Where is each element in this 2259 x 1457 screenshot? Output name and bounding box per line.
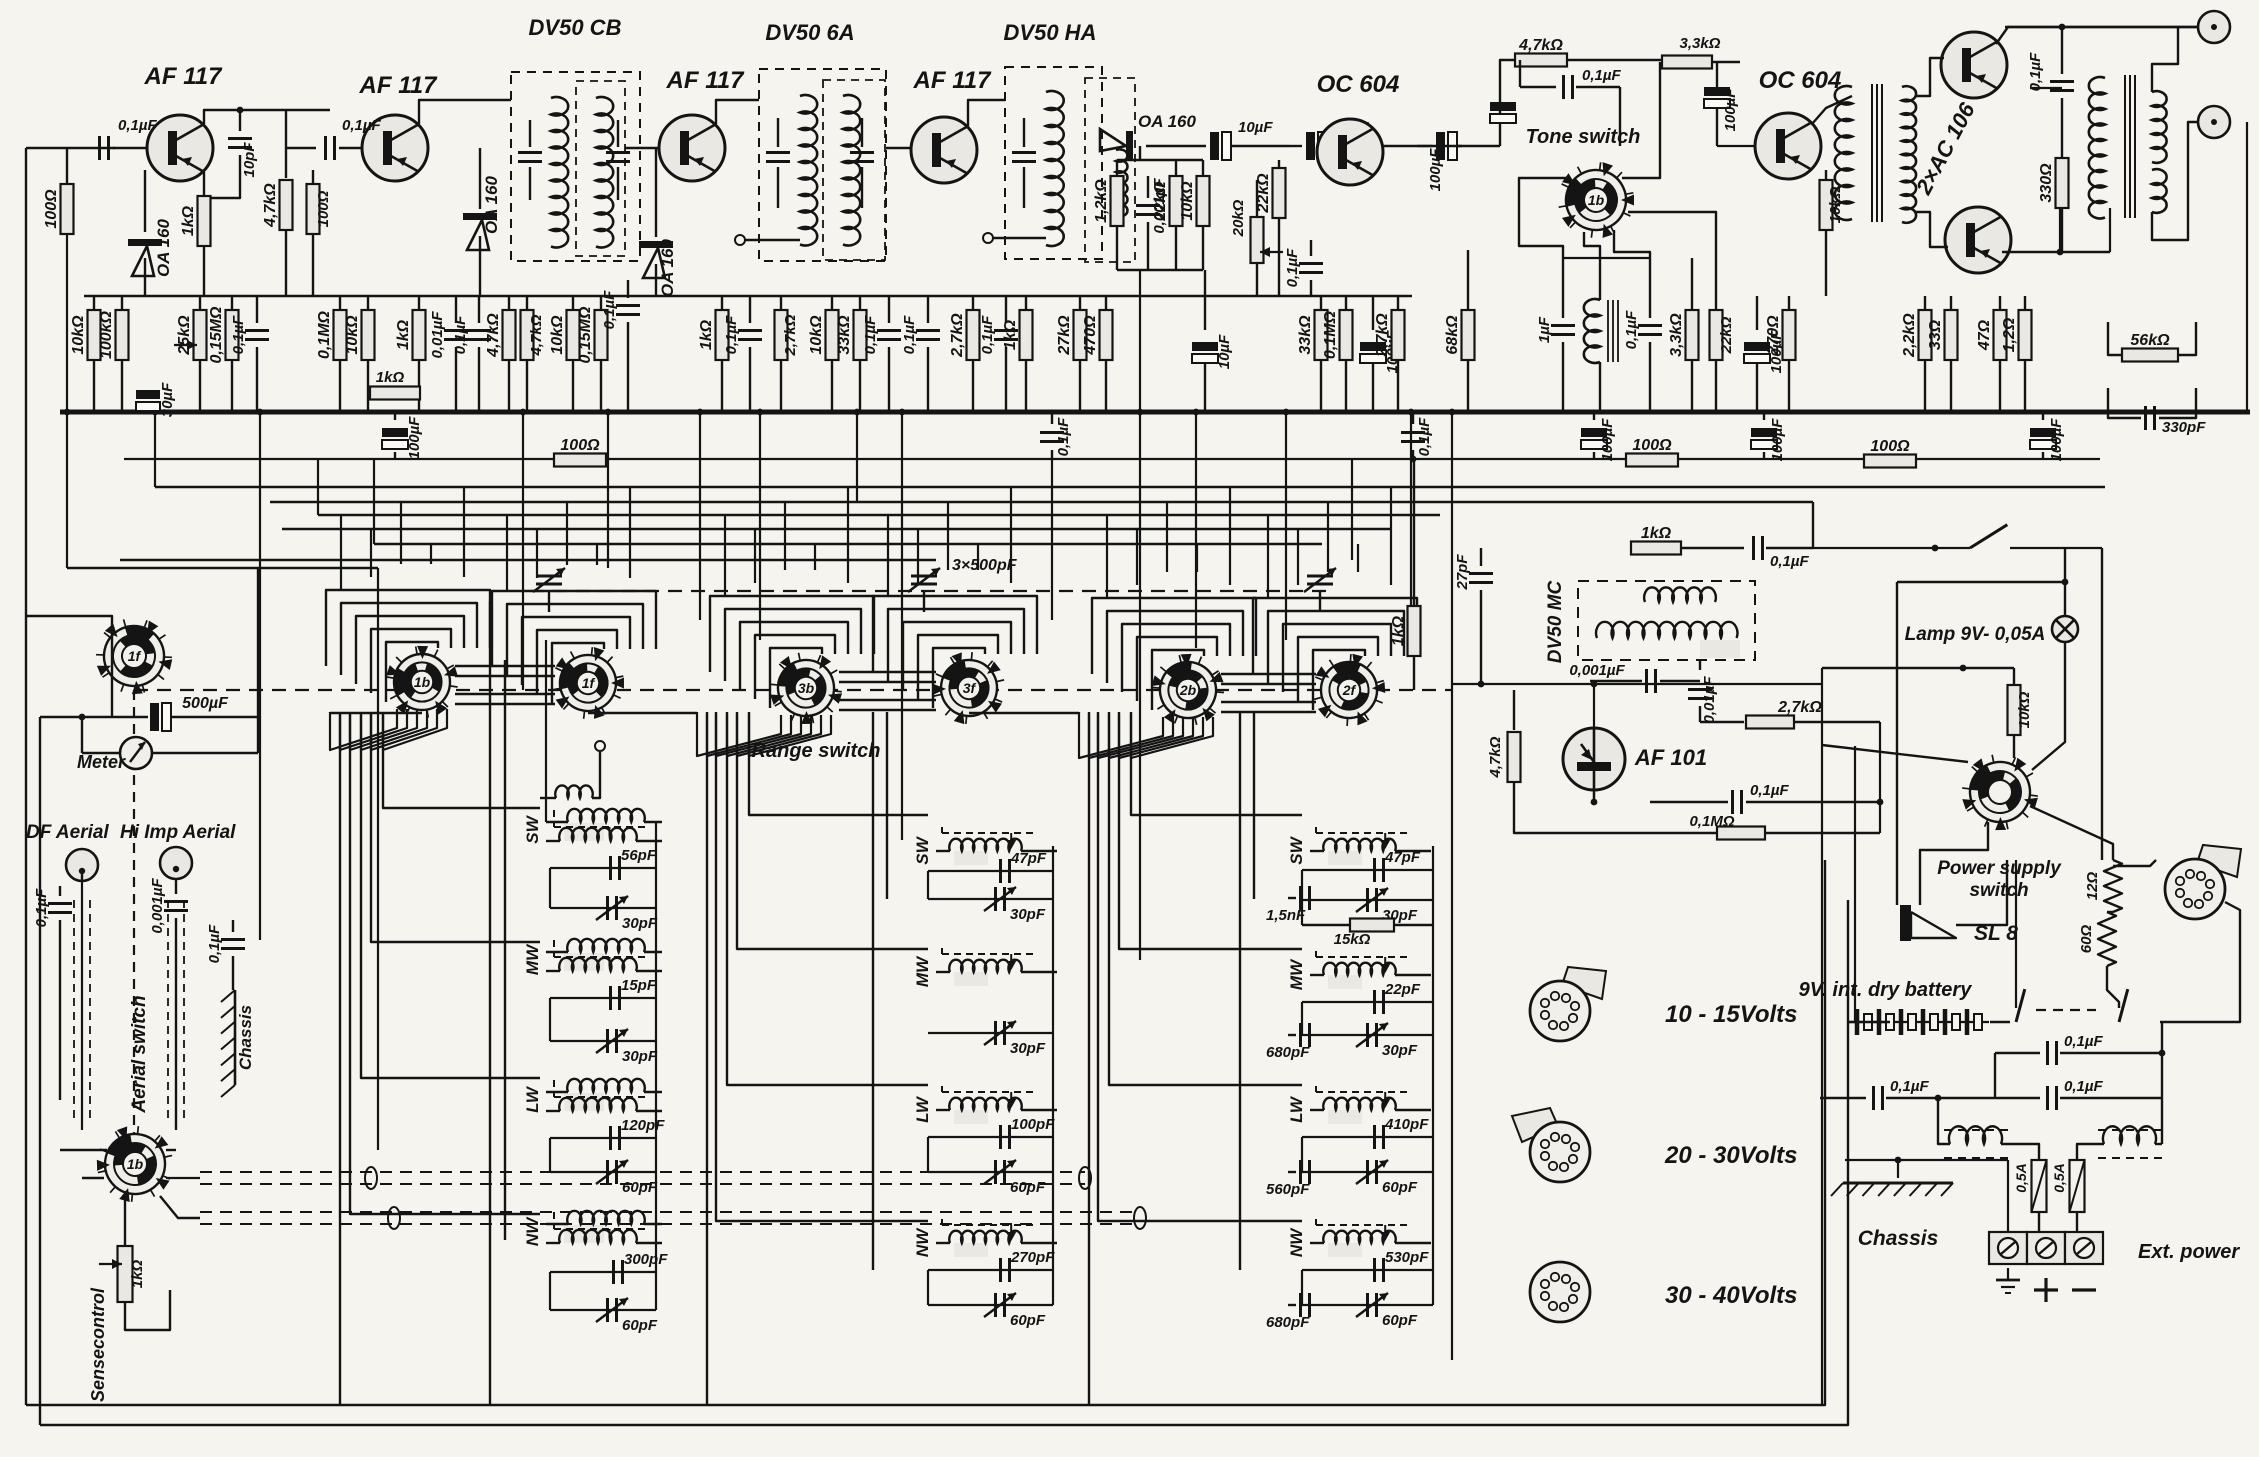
resistor 47R out <box>1999 296 2001 310</box>
svg-text:30pF: 30pF <box>1010 1040 1046 1057</box>
capacitor 680pF mw <box>1288 1034 1296 1036</box>
transformer T3 DV50 HA dashed box <box>1005 67 1102 259</box>
svg-text:1µF: 1µF <box>1536 316 1553 343</box>
coil T3 secondary <box>1116 149 1127 216</box>
wire tone fan a <box>1519 178 1566 258</box>
svg-text:60pF: 60pF <box>1010 1312 1046 1329</box>
wire stair run <box>361 712 540 1078</box>
svg-text:100pF: 100pF <box>1011 1116 1055 1133</box>
capacitor 300pF <box>550 1271 656 1273</box>
wire routing h515 <box>318 514 1440 516</box>
svg-text:1b: 1b <box>1588 192 1605 208</box>
svg-text:33Ω: 33Ω <box>1927 319 1944 350</box>
svg-text:30pF: 30pF <box>622 915 658 932</box>
wire 10k power <box>1822 667 2014 669</box>
inductor choke b <box>2103 1126 2156 1144</box>
coil T1 secondary <box>596 97 613 247</box>
capacitor 27pF <box>1480 548 1482 566</box>
resistor 1k v2 <box>418 296 420 310</box>
inductor pickup coil col1 <box>555 785 592 798</box>
wire meter row <box>82 752 120 754</box>
svg-text:4,7kΩ: 4,7kΩ <box>1518 37 1563 54</box>
resistor 2,7k v4 <box>972 296 974 310</box>
wire stair run <box>1131 712 1302 815</box>
svg-text:LW: LW <box>913 1095 932 1122</box>
resistor 4,7k a <box>508 296 510 310</box>
svg-text:0,1µF: 0,1µF <box>901 315 918 354</box>
svg-text:1,5nF: 1,5nF <box>1266 907 1306 924</box>
svg-text:30 - 40Volts: 30 - 40Volts <box>1665 1282 1798 1309</box>
wire T2 to V4 <box>886 147 911 149</box>
transformer T2 DV50 6A dashed box <box>759 69 886 261</box>
resistor 4,7k tone <box>1500 60 1516 146</box>
resistor 60R zigzag <box>2098 912 2116 966</box>
svg-text:0,01µF: 0,01µF <box>1701 676 1718 724</box>
capacitor 47pF <box>928 870 1053 872</box>
wire base V1 <box>113 147 147 149</box>
wire stair run <box>1109 712 1302 1085</box>
wire v258 <box>257 568 259 753</box>
transistor V4 AF 117 <box>911 117 977 183</box>
switch S1b rotary <box>386 646 458 718</box>
svg-text:0,1µF: 0,1µF <box>1770 553 1809 570</box>
resistor 27k t3 <box>1079 296 1081 310</box>
resistor 10k v2 <box>367 296 369 310</box>
capacitor 30pF <box>1302 1034 1433 1036</box>
svg-text:Power supply: Power supply <box>1937 858 2062 879</box>
capacitor 0,1uF <box>256 296 258 323</box>
svg-text:0,1µF: 0,1µF <box>2027 52 2044 91</box>
capacitor 0,1uF rail <box>1051 412 1053 424</box>
svg-text:100µF: 100µF <box>406 416 423 460</box>
wire lamp junction <box>1897 581 2065 583</box>
svg-text:Chassis: Chassis <box>1858 1227 1939 1250</box>
svg-text:1kΩ: 1kΩ <box>395 319 412 350</box>
wire bottom outer <box>26 860 1825 1405</box>
transistor V2 AF 117 <box>362 115 428 181</box>
svg-text:0,5A: 0,5A <box>2013 1163 2029 1193</box>
resistor 56k fb <box>2122 349 2178 362</box>
svg-text:0,1µF: 0,1µF <box>1623 310 1640 349</box>
resistor 10k t2 <box>831 296 833 310</box>
capacitor 500uF <box>40 716 148 718</box>
capacitor 100uF v5 <box>1372 296 1374 330</box>
inductor tone choke <box>1599 258 1601 300</box>
svg-text:4,7kΩ: 4,7kΩ <box>1487 736 1504 778</box>
resistor 1k V1 <box>203 172 205 196</box>
capacitor 0,001uF aerial <box>175 879 177 894</box>
transformer T4 driver <box>1835 86 1852 220</box>
svg-text:OA 160: OA 160 <box>154 218 173 277</box>
wire col1 left pair a <box>504 660 506 1240</box>
meter M <box>120 737 152 769</box>
wire stair run <box>1119 712 1302 949</box>
svg-text:10µF: 10µF <box>1238 119 1273 136</box>
capacitor 1,5nF <box>1288 897 1296 899</box>
resistor 0,1M v5 <box>1345 296 1347 310</box>
svg-text:0,1µF: 0,1µF <box>1582 67 1621 84</box>
wire col1 right vertical <box>655 822 657 1310</box>
diode SL8 <box>1900 905 1911 941</box>
svg-text:25kΩ: 25kΩ <box>176 315 193 356</box>
svg-text:AF 117: AF 117 <box>144 63 224 90</box>
svg-text:1kΩ: 1kΩ <box>1390 615 1407 646</box>
svg-text:60pF: 60pF <box>622 1179 658 1196</box>
wire tone node <box>1563 257 1650 259</box>
wire tone fan c <box>1614 230 1650 258</box>
wire tone fan e <box>1622 62 1660 178</box>
wire routing h544 <box>374 543 1322 545</box>
capacitor 270pF <box>928 1269 1053 1271</box>
svg-text:0,1MΩ: 0,1MΩ <box>1689 813 1734 830</box>
svg-text:Ext. power: Ext. power <box>2138 1241 2240 1263</box>
resistor 25k pot <box>194 310 207 360</box>
capacitor 0,001uF <box>1147 176 1149 198</box>
svg-text:OA 160: OA 160 <box>1138 112 1197 131</box>
svg-text:22pF: 22pF <box>1384 981 1421 998</box>
svg-text:0,1µF: 0,1µF <box>1284 248 1301 287</box>
wire det row <box>1117 269 1203 271</box>
capacitor 0,1uF ps c <box>1995 1097 2040 1099</box>
svg-text:500µF: 500µF <box>182 695 229 712</box>
wire left frame inner <box>39 717 41 1425</box>
capacitor 30pF <box>550 907 656 909</box>
svg-text:Meter: Meter <box>77 752 126 772</box>
svg-text:OC 604: OC 604 <box>1317 71 1400 98</box>
wire secondary rail y459 <box>124 458 2100 460</box>
capacitor 0,1uF v4 <box>927 296 929 323</box>
transformer T6 DV50 MC dashed box <box>1578 581 1755 660</box>
connector volts 20-30 <box>1512 1108 1558 1142</box>
svg-text:4,7kΩ: 4,7kΩ <box>485 313 502 358</box>
capacitor 0,1uF b <box>478 296 480 323</box>
wire v700 <box>699 412 701 620</box>
connector DF aerial <box>66 849 98 881</box>
svg-text:0,1µF: 0,1µF <box>862 315 879 354</box>
resistor 3,3k tone top <box>1660 59 1662 61</box>
capacitor 10uF no1 <box>1146 145 1206 147</box>
svg-text:AF 117: AF 117 <box>666 67 746 94</box>
resistor 1k afc <box>1631 542 1681 555</box>
wire feeds switch 2f <box>1267 515 1269 598</box>
wire tone fan d <box>1628 212 1716 258</box>
wire 12R 60R join <box>2107 911 2113 913</box>
coil T1 primary <box>551 97 568 247</box>
wire on-off drop <box>1812 502 1814 548</box>
svg-text:0,1µF: 0,1µF <box>206 924 223 963</box>
svg-text:22kΩ: 22kΩ <box>1718 316 1735 354</box>
resistor 1k v3 <box>721 296 723 310</box>
terminal ext ground <box>1989 1232 2027 1264</box>
potentiometer sensecontrol 1k <box>124 1196 126 1246</box>
switch S power supply rotary <box>1948 739 2053 844</box>
svg-text:0,1MΩ: 0,1MΩ <box>1322 310 1339 359</box>
svg-text:1kΩ: 1kΩ <box>180 205 197 236</box>
svg-text:0,5A: 0,5A <box>2051 1163 2067 1193</box>
wire output primary top <box>2030 87 2062 89</box>
resistor 470R t3 <box>1105 296 1107 310</box>
capacitor variable gang 2 <box>911 575 937 578</box>
coil T2 secondary <box>843 95 860 245</box>
capacitor 560pF lw <box>1288 1171 1296 1173</box>
svg-text:10kΩ: 10kΩ <box>549 315 566 355</box>
resistor 4,7k <box>285 110 287 178</box>
svg-text:60Ω: 60Ω <box>2078 925 2095 954</box>
ground chassis aerial <box>234 990 237 1085</box>
svg-text:switch: switch <box>1969 880 2028 901</box>
transistor V6 OC 604 <box>1755 113 1821 179</box>
wire ps v1995 <box>1994 1053 1996 1098</box>
wire v608 <box>607 412 609 568</box>
connector power plug <box>2197 845 2241 877</box>
resistor 100R rail a <box>554 454 606 467</box>
wire col3 right vertical <box>1432 846 1434 1305</box>
switch S tone rotary <box>1549 153 1643 247</box>
svg-text:0,001µF: 0,001µF <box>149 877 166 933</box>
capacitor 30pF <box>928 898 1053 900</box>
capacitor 30pF <box>1302 899 1433 901</box>
capacitor 100pF <box>928 1136 1053 1138</box>
capacitor 680pF nw <box>1288 1304 1296 1306</box>
svg-text:NW: NW <box>913 1227 932 1257</box>
svg-text:680pF: 680pF <box>1266 1044 1310 1061</box>
wire v260 <box>259 412 261 940</box>
svg-text:0,1MΩ: 0,1MΩ <box>316 310 333 359</box>
svg-text:3,3kΩ: 3,3kΩ <box>1668 313 1685 357</box>
inductor LW coil <box>1328 1110 1362 1124</box>
wire v1052 <box>1051 459 1053 620</box>
svg-text:33kΩ: 33kΩ <box>836 315 853 355</box>
svg-text:560pF: 560pF <box>1266 1181 1310 1198</box>
wire stair run <box>716 712 928 1221</box>
capacitor 100uF below bus b <box>1593 412 1595 420</box>
wire feeds switch 1b <box>340 515 342 590</box>
svg-text:MW: MW <box>1287 958 1306 990</box>
capacitor 330pF fb <box>2144 406 2147 430</box>
svg-text:DF Aerial: DF Aerial <box>26 822 109 843</box>
resistor 1k osc <box>1413 459 1415 606</box>
wire stair run <box>749 712 928 815</box>
resistor 33R out <box>1950 296 1952 310</box>
wire 1b hook a <box>60 1149 107 1151</box>
capacitor variable gang 1 <box>536 575 562 578</box>
transformer T1 DV50 CB dashed box <box>511 72 640 261</box>
switch S1f aerial rotary <box>90 611 180 701</box>
svg-text:3f: 3f <box>963 680 977 696</box>
wire af101 out right <box>1879 722 1881 833</box>
svg-text:0,1µF: 0,1µF <box>1750 782 1789 799</box>
wire stair left link <box>969 712 1079 713</box>
svg-text:10 - 15Volts: 10 - 15Volts <box>1665 1001 1798 1028</box>
resistor 33k v5 <box>1320 296 1322 310</box>
wire v1140 <box>1139 412 1141 960</box>
svg-text:0,1µF: 0,1µF <box>979 315 996 354</box>
wire y684 <box>1452 683 1822 685</box>
svg-text:0,1µF: 0,1µF <box>601 290 618 329</box>
capacitor T2 secondary <box>861 118 863 147</box>
svg-text:30pF: 30pF <box>1010 906 1046 923</box>
svg-text:9V. int. dry battery: 9V. int. dry battery <box>1799 979 1973 1001</box>
wire col1 left pair b <box>489 601 491 1405</box>
capacitor 60pF <box>1302 1171 1433 1173</box>
capacitor 0,1uF aerial <box>59 886 61 896</box>
cable HiImp screened <box>183 900 185 1120</box>
svg-text:47Ω: 47Ω <box>1976 319 1993 351</box>
transistor V8 AC 106 lower <box>1945 207 2011 273</box>
wire choke drops <box>1938 1098 1950 1144</box>
wire col1 left vertical b <box>549 1138 551 1172</box>
switch S power on/off <box>1813 547 1970 549</box>
capacitor 100uF tone2 <box>1704 87 1730 96</box>
diode OA 160 no1 <box>128 239 162 246</box>
wire 10pF down <box>206 180 240 198</box>
capacitor 100uF v6 <box>1756 296 1758 330</box>
wire sl8 drop <box>1896 582 1898 905</box>
capacitor 0,1uF t2 <box>888 296 890 323</box>
resistor 2,7k osc <box>1700 721 1744 723</box>
wire output core link <box>2104 74 2106 76</box>
capacitor 0,01uF <box>455 296 457 323</box>
svg-text:1b: 1b <box>127 1156 144 1172</box>
coil T6 upper <box>1644 587 1716 602</box>
wire v1822 <box>1821 668 1823 1405</box>
svg-text:410pF: 410pF <box>1384 1116 1429 1133</box>
wire af101 bottom <box>1593 790 1595 802</box>
svg-text:1kΩ: 1kΩ <box>1002 319 1019 350</box>
wire inter-switch bundles <box>455 665 555 667</box>
svg-text:0,1µF: 0,1µF <box>1416 417 1433 456</box>
wire routing h568 <box>67 567 378 569</box>
svg-text:22kΩ: 22kΩ <box>1152 181 1169 222</box>
capacitor 0,1uF v4b <box>1005 296 1007 323</box>
svg-text:OA 160: OA 160 <box>658 238 677 297</box>
switch S3f rotary <box>919 637 1020 738</box>
wire v1848 <box>1854 746 1856 1022</box>
resistor 2,2k out <box>1924 296 1926 310</box>
switch S1f rotary <box>543 638 633 727</box>
resistor 12R zigzag <box>2104 860 2122 912</box>
resistor 270R v6 <box>1788 296 1790 310</box>
wire af101 top <box>1593 684 1595 728</box>
connector Hi Imp aerial <box>160 847 192 879</box>
wire v1452 down <box>1451 690 1453 1360</box>
wire 1b hook c <box>166 1149 176 1151</box>
svg-text:100Ω: 100Ω <box>43 189 60 229</box>
svg-text:Lamp 9V- 0,05A: Lamp 9V- 0,05A <box>1905 624 2046 645</box>
svg-text:30µF: 30µF <box>159 382 176 417</box>
svg-text:2f: 2f <box>1342 682 1357 698</box>
transformer T5 output <box>2089 77 2105 218</box>
wire lamp down <box>2064 642 2066 700</box>
svg-text:330Ω: 330Ω <box>2038 163 2055 203</box>
connector speaker jack lower <box>2198 106 2230 138</box>
capacitor 60pF <box>928 1304 1053 1306</box>
capacitor 10pF <box>239 110 241 131</box>
svg-text:15pF: 15pF <box>621 977 657 994</box>
wire left input drop <box>25 148 27 616</box>
wire v523 <box>522 412 524 690</box>
wire chassis stem <box>1895 1157 1902 1164</box>
capacitor 0,1uF af101 <box>1593 790 1595 802</box>
wire stair run <box>371 712 540 942</box>
resistor 100R rail b <box>1626 454 1678 467</box>
svg-text:60pF: 60pF <box>1382 1312 1418 1329</box>
capacitor 0,1uF tone <box>1520 86 1556 88</box>
svg-text:10kΩ: 10kΩ <box>344 315 361 355</box>
capacitor C 0,1uF input <box>98 136 101 160</box>
wire 1b hook b <box>82 1177 104 1179</box>
wire right edge <box>2246 122 2248 412</box>
wire v760 <box>759 412 761 640</box>
capacitor 30pF <box>928 1032 1053 1034</box>
capacitor 0,01uF osc <box>1699 660 1701 670</box>
fuse 0,5A b <box>2070 1160 2085 1212</box>
node aerial term T3 <box>983 233 993 243</box>
switch battery contact a <box>1990 1021 2010 1023</box>
capacitor 1uF tone <box>1562 258 1564 318</box>
svg-text:MW: MW <box>523 943 542 975</box>
transistor V1 AF 117 <box>147 115 213 181</box>
resistor 1,2k <box>1116 160 1118 176</box>
wire T1 to V3 <box>625 147 659 149</box>
svg-text:DV50 CB: DV50 CB <box>529 15 622 40</box>
svg-text:100µF: 100µF <box>1427 148 1444 192</box>
capacitor 0,1uF t1 <box>627 280 629 298</box>
resistor 22k agc <box>1278 160 1280 170</box>
wire ps v2162 <box>2161 1022 2163 1098</box>
svg-text:0,1µF: 0,1µF <box>452 315 469 354</box>
ground chassis power <box>1843 1182 1953 1185</box>
resistor 68k v5 <box>1467 250 1469 310</box>
svg-text:20 - 30Volts: 20 - 30Volts <box>1664 1142 1798 1169</box>
svg-text:3b: 3b <box>798 680 815 696</box>
wire routing h487 <box>155 486 2105 488</box>
svg-text:DV50 MC: DV50 MC <box>1545 581 1566 664</box>
potentiometer 20k <box>1251 217 1264 263</box>
capacitor 100uF below bus a <box>394 412 396 420</box>
connector volts 30-40 <box>1530 1262 1590 1322</box>
wire v6 base <box>1717 145 1755 147</box>
capacitor 47pF <box>1302 869 1433 871</box>
capacitor T1 primary <box>529 120 531 147</box>
fuse 0,5A a <box>2032 1160 2047 1212</box>
wire stair bottom <box>339 712 341 1405</box>
wire collector V1 up <box>204 110 330 124</box>
svg-text:DV50 HA: DV50 HA <box>1004 20 1097 45</box>
svg-text:1kΩ: 1kΩ <box>376 369 405 386</box>
wire stair run <box>727 712 928 1085</box>
svg-text:100Ω: 100Ω <box>1870 438 1910 455</box>
wire gang dashed line <box>530 590 1330 592</box>
svg-text:Aerial switch: Aerial switch <box>129 995 150 1113</box>
svg-text:680pF: 680pF <box>1266 1314 1310 1331</box>
resistor 10k det <box>1202 160 1204 176</box>
svg-text:30pF: 30pF <box>622 1048 658 1065</box>
resistor 2,7k v5 <box>1397 296 1399 310</box>
inductor MW coil <box>1328 975 1362 989</box>
wire fan switch 2f <box>1253 598 1417 674</box>
svg-text:Hi Imp Aerial: Hi Imp Aerial <box>120 822 236 843</box>
resistor 0,1M af101 <box>1650 832 1718 834</box>
svg-text:1kΩ: 1kΩ <box>1641 525 1672 542</box>
svg-text:AF 117: AF 117 <box>359 72 439 99</box>
svg-text:4,7kΩ: 4,7kΩ <box>528 314 545 356</box>
inductor choke a <box>1949 1126 2002 1144</box>
capacitor T3 <box>1023 118 1025 147</box>
svg-text:100kΩ: 100kΩ <box>98 310 115 359</box>
wire switch row dashed <box>134 689 1452 691</box>
inductor LW coil <box>564 1093 604 1111</box>
